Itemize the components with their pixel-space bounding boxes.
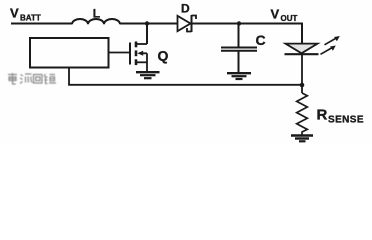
ground (R_SENSE) xyxy=(291,136,313,142)
svg-text:C: C xyxy=(256,32,266,48)
label V_OUT xyxy=(271,7,298,24)
label R_SENSE xyxy=(317,107,364,126)
svg-text:L: L xyxy=(93,7,100,21)
wire rail diode to Vout corner xyxy=(193,23,304,25)
controller box xyxy=(30,38,109,68)
svg-text:R: R xyxy=(317,107,328,124)
inductor L xyxy=(72,19,120,24)
LED D2 xyxy=(285,44,319,55)
wire feedback horizontal xyxy=(68,84,302,86)
ground (mosfet) xyxy=(136,72,160,78)
wire LED cathode down xyxy=(301,54,303,93)
wire top rail left segment xyxy=(11,23,72,25)
svg-text:V: V xyxy=(10,6,19,21)
wire rail inductor to diode xyxy=(120,23,178,25)
diode D (schottky) xyxy=(178,15,197,32)
resistor R_SENSE xyxy=(297,93,308,135)
svg-text:Q: Q xyxy=(158,48,169,64)
wire drain vertical xyxy=(146,24,148,45)
wire feedback vertical from box xyxy=(68,68,70,85)
wire Vout corner down to LED xyxy=(301,23,303,45)
node drain junction xyxy=(145,21,149,25)
node feedback junction xyxy=(300,83,305,88)
svg-text:V: V xyxy=(271,7,280,22)
label V_BATT xyxy=(10,6,41,23)
label 電流回饋 (current feedback, gray) xyxy=(8,73,56,84)
LED arrows xyxy=(321,36,340,54)
svg-text:BATT: BATT xyxy=(20,14,41,23)
svg-text:OUT: OUT xyxy=(281,14,298,23)
transistor Q (NMOS) xyxy=(130,42,147,72)
svg-text:SENSE: SENSE xyxy=(328,115,364,126)
node capacitor junction xyxy=(237,21,241,25)
capacitor C xyxy=(221,24,257,73)
svg-text:D: D xyxy=(181,2,190,16)
wire gate xyxy=(109,52,130,54)
ground (capacitor) xyxy=(227,73,251,79)
